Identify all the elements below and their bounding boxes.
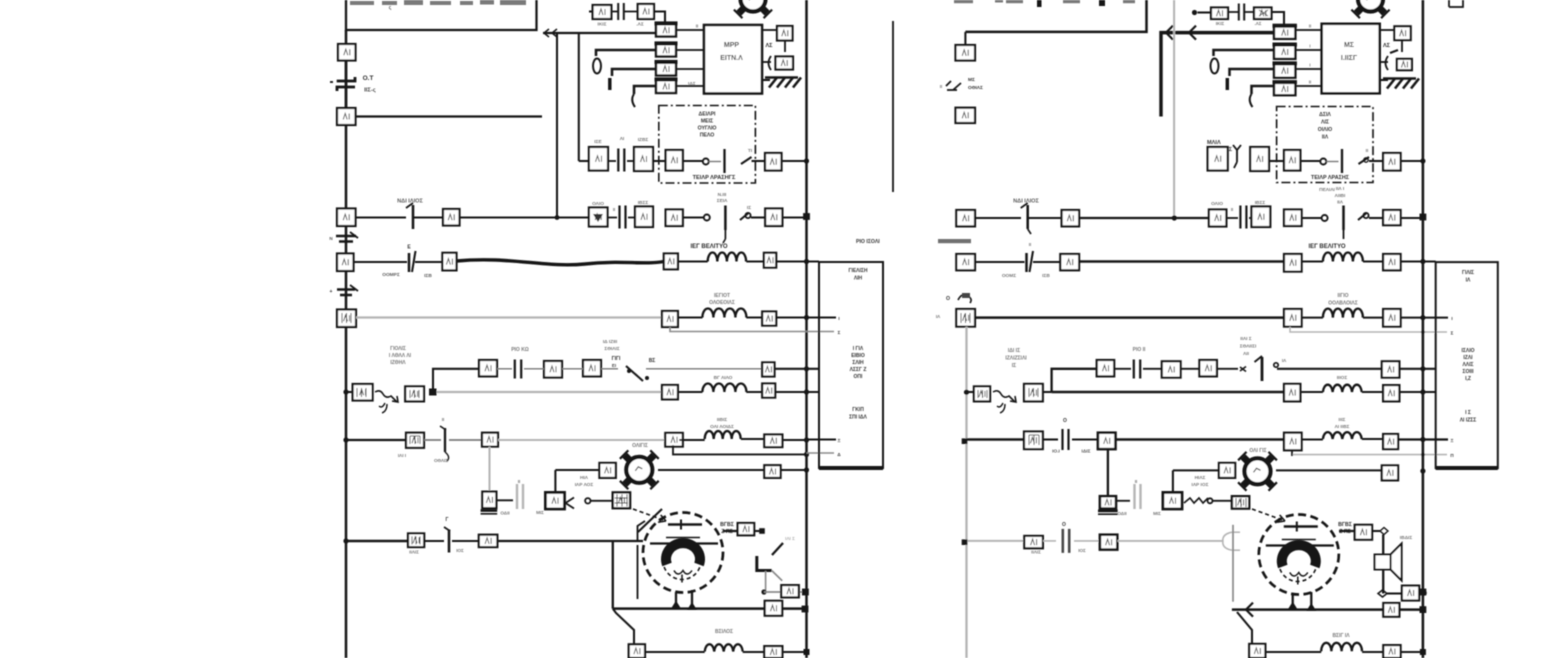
connector B12 rung317 [762,312,776,326]
switch S2 rung217 [704,215,710,221]
connector B14 rung392 [662,385,678,399]
overload thick L P1 [757,556,772,571]
wire rung161 mid2 P2 [1300,160,1320,162]
overload diag gray P1 [772,571,783,581]
capacitor sub P2 [1134,360,1140,379]
svg-text:+: + [330,289,333,295]
svg-text:ΜΙΣ: ΜΙΣ [1153,511,1161,516]
arrow marks top rung P1 [544,29,557,37]
connector B2 rung161 [634,147,653,171]
fan symbol F1 P2 [1238,452,1277,491]
connector B16 rung440 [665,433,683,447]
connector column pin4 P2 [1274,83,1295,96]
svg-text:ΙΖΒΣ: ΙΖΒΣ [638,137,649,143]
svg-text:ΙΛΙ Σ: ΙΛΙ Σ [785,536,795,541]
svg-text:ΠΕΛΙΛΙ: ΠΕΛΙΛΙ [1319,187,1335,193]
wire start b [590,500,612,502]
wire rung392 c P2 [1362,391,1383,393]
svg-text:ΜΕΙΣ: ΜΕΙΣ [701,119,713,125]
connector A9 rung392 [405,386,424,401]
svg-text:ΛΣ: ΛΣ [766,43,774,49]
connector A7 on bus rung317 [337,310,356,328]
right bus wire P2 [1422,0,1425,658]
wire y454 faint P2 [1293,454,1423,456]
arrow on bottom wire P2 [1246,603,1253,617]
connector B5 rung217 [589,208,608,227]
connector G3 bottom P2 [1383,645,1400,658]
motor left curve P2 [1223,532,1232,550]
wire motor right P2 [1339,530,1355,532]
svg-text:ΙΙ: ΙΙ [613,207,615,212]
arrowed wire P2 [1161,33,1274,117]
wire rung541 c P2 [1074,540,1100,542]
svg-text:ΣΛΙΗ: ΣΛΙΗ [852,360,864,366]
wire sub to bus P2 [1399,368,1435,370]
svg-text:ΙΙΛΙ Σ: ΙΙΛΙ Σ [1240,336,1252,342]
wire run-cap vert [554,470,556,492]
svg-text:ΟΟΛΒΛΟΙΛΣ: ΟΟΛΒΛΟΙΛΣ [1328,301,1357,307]
svg-text:ΤΕΙΛΡ ΛΡΑΣΗΣ: ΤΕΙΛΡ ΛΡΑΣΗΣ [1311,175,1350,181]
wire pin2 left [596,50,656,56]
wire bus to A8 P2 [967,391,974,393]
svg-text:Ν.ΙΙΙ: Ν.ΙΙΙ [718,192,727,198]
wire pin3 left P2 [1230,69,1275,76]
wire rung261 c [678,260,708,262]
bus square y592 [802,589,809,596]
wire rung261 a P2 [975,261,1025,263]
squiggle start P2 [1184,498,1208,503]
coil L4 P2 [1323,432,1362,439]
connector B8 rung217 [765,209,782,227]
wire rung440 b P2 [1043,438,1058,440]
svg-text:.ΛΣ: .ΛΣ [636,22,644,28]
svg-text:ΙΣΒ: ΙΣΒ [1042,273,1050,279]
capacitor start gray [517,484,523,509]
junction dot overload P1 [761,589,766,594]
wire rung217 e [751,216,765,218]
wire to ground [784,41,786,53]
wire rung261 a [354,261,408,263]
wire rung392 to box [775,391,819,393]
svg-text:ΙΙΣ-ς: ΙΙΣ-ς [364,88,376,94]
wire rung261 b [415,261,442,263]
connector D1 fan P2 [1219,463,1235,478]
top gray dashes P2 [954,0,1135,3]
svg-text:ΣΘΙΛΙΣ: ΣΘΙΛΙΣ [604,346,619,352]
capacitor rung218 P2 [1226,217,1238,219]
capacitor tilted rung261 P2 [1025,253,1028,272]
wire rung261 d [746,260,764,262]
arrowheads P2 [1166,26,1173,40]
fan symbol condenser-fan top P1 [734,0,772,18]
connector J2 P1 [337,108,356,125]
switch TD rung161 P2 [1320,159,1326,165]
wire rung440 to bus [782,439,806,441]
svg-text:Ξ: Ξ [838,438,841,443]
wire rung392 b P2 [1300,391,1323,393]
svg-text:ΙΚΙΣ: ΙΚΙΣ [1216,21,1225,26]
svg-text:ΙΙ: ΙΙ [940,84,942,89]
wire rung440 c [449,439,482,441]
wire rung261 long P2 [1079,260,1284,263]
svg-text:ΙΙ: ΙΙ [1029,242,1031,247]
svg-text:ΙΟΣ: ΙΟΣ [456,548,464,553]
connector A3 on bus rung217 [337,209,356,227]
wire sub a P2 [1114,368,1131,370]
connector D2 fan P2 [1382,465,1398,480]
svg-text:ΟΛΙΟ: ΟΛΙΟ [592,201,604,207]
connector C1 sub rung [479,360,497,376]
wire rung161 to bus [782,160,807,162]
svg-text:ΙΙ: ΙΙ [1309,24,1311,29]
coil L1 rung261 P2 [1323,253,1363,262]
wire rung261 c P2 [1302,260,1323,262]
svg-text:ΟΥΓΛΙΟ: ΟΥΓΛΙΟ [698,126,717,132]
bus square y609 [802,606,809,613]
svg-text:ΙΒΣΣ: ΙΒΣΣ [638,200,649,206]
svg-text:ΟΛΟΕΟΙΛΣ: ΟΛΟΕΟΙΛΣ [709,300,735,306]
svg-text:ΟΘΛΙΣ: ΟΘΛΙΣ [434,458,448,463]
mid vertical wire x557 P1 [556,33,558,218]
svg-text:Ι: Ι [838,316,839,321]
wire motor bottom diag P2 [1237,612,1252,644]
connector E1 start rung [482,492,496,509]
connector A11 rung440 [482,433,498,447]
wire pin3 left [612,69,656,76]
wire rung440 e [741,438,764,440]
dashed box defrost control P1 [659,106,756,184]
label heater dark under switch [723,239,725,243]
svg-text:ς: ς [389,5,392,11]
connector column pin3 P2 [1274,64,1295,78]
wire rung218 e P2 [1369,217,1383,219]
connector B16 rung440 P2 [1284,433,1302,451]
svg-text:ΡΙΟ ΙΙ: ΡΙΟ ΙΙ [1133,347,1146,353]
svg-text:ΜΡΡ: ΜΡΡ [724,42,740,49]
connector E3 start P2 [1232,496,1249,508]
wire U1 to J3 [763,29,777,31]
switch S2 rung218 P2 [1322,215,1328,221]
connector F1 y592 P2 [1402,586,1419,601]
wire rung541 a [346,540,408,543]
connector C2 sub P2 [1162,361,1181,377]
faint vertical x1174 P2 [1173,0,1175,218]
load box P2 [1436,262,1498,468]
motor pin wires bottom P1 [675,592,677,609]
thermostat squiggle P2 [993,391,1016,402]
svg-text:ΛΙΗ: ΛΙΗ [854,276,863,282]
wire rung541 c [452,540,479,542]
svg-text:ΙΙ: ΙΙ [1309,80,1311,85]
svg-text:ΕΙΒΙΟ: ΕΙΒΙΟ [851,353,865,359]
wire rung440 to box P2 [1398,438,1448,440]
fan symbol F1 P1 [620,450,659,489]
connector D2 fan rung [764,465,780,478]
svg-text:ΙΛ: ΙΛ [1466,278,1471,284]
wire rung261 b P2 [1033,261,1060,263]
dashed arrow to motor P1 [633,509,666,522]
wire motor bottom diag P1 [613,609,634,644]
wire rung317 to box P2 [1401,317,1448,319]
wire rung440 c P2 [1072,438,1098,440]
connector K1 P2 [1211,8,1228,20]
switch rung440 [444,428,446,452]
svg-text:ΙΕΓΙΟΤ: ΙΕΓΙΟΤ [714,293,730,299]
svg-text:ΔΣΙΛ: ΔΣΙΛ [1319,112,1331,118]
connector A8 rung392 [353,384,373,401]
wire vert faint to start [488,447,490,492]
wire rung161 right P2 [1369,160,1383,162]
wire fan rung a [555,469,599,471]
thermostat squiggle rung392 [375,391,398,402]
svg-text:ΒΣ: ΒΣ [649,358,656,364]
wire rung217 a [356,216,407,218]
connector K2 P2 [1254,8,1272,20]
svg-text:ΡΙΟ ΚΩ: ΡΙΟ ΚΩ [511,347,529,353]
connector A9 rung392 P2 [1024,384,1043,402]
connector A10 rung440 P2 [1024,432,1043,450]
wire motor bottom P2 [1232,608,1423,611]
svg-text:ΔΕΙΛΡΙ: ΔΕΙΛΡΙ [699,112,717,118]
svg-text:Ξ: Ξ [1451,438,1454,443]
connector E3 start rung grid [613,492,630,508]
connector B10 rung261 [764,253,776,268]
svg-text:Ο: Ο [1062,522,1066,528]
wire rung392 faint [437,391,663,393]
wire rung440 a [346,439,406,441]
svg-text:Ο: Ο [946,296,950,302]
connector B4 rung161 [765,153,782,171]
wire rung217 c [460,216,589,218]
dashed arrow to motor P2 [1252,509,1285,522]
wire U1 mid pin P2 [1381,61,1388,63]
capacitor PTC sub rung [515,360,521,379]
coil L2 defrost connector [702,309,746,318]
connector column pin1 P2 [1274,26,1295,39]
svg-text:ΙΙΒΙΣ: ΙΙΒΙΣ [717,417,727,423]
wire rung317 pin2 faint [670,327,807,332]
connector column pin4 P1 [656,80,676,93]
wire run-cap vert P2 [1172,470,1174,496]
fan symbol top P2 [1351,0,1389,18]
connector G3 bottom [764,646,782,658]
connector B12 rung317 P2 [1383,309,1401,327]
svg-text:ΙΣΛΙΟ: ΙΣΛΙΟ [1461,348,1474,354]
wire U1 pin mid [763,61,771,63]
connector B13 sub P2 [1382,361,1400,377]
svg-text:ΙΣ: ΙΣ [747,205,751,211]
connector J2 P2 [956,108,976,123]
connector B2 rung161 P2 [1250,147,1269,171]
svg-text:ΕΙ: ΕΙ [612,363,616,368]
wire rung440 e P2 [1362,438,1383,440]
connector B11 rung317 P2 [1284,309,1302,327]
svg-text:ΒΣΙΓ ΙΛ: ΒΣΙΓ ΙΛ [1332,633,1350,639]
connector A5 on bus rung261 [337,254,354,272]
overload switch blade P1 [772,543,783,555]
op-amp U1 main pcb P1 [704,25,762,94]
wire motor left vert1 [612,541,614,609]
svg-text:ΤΙ: ΤΙ [748,148,753,154]
wire rung317 b [678,316,703,318]
svg-text:ΛΙ ΙΙΒΣ: ΛΙ ΙΙΒΣ [1335,424,1350,430]
coil L2 heater connector P2 [1323,309,1363,318]
capacitor on bus y238 P1 [336,235,356,238]
svg-text:Ι ΛΘΛΛ ΛΙ: Ι ΛΘΛΛ ΛΙ [389,353,412,359]
connector A5 rung261 P2 [956,254,975,270]
op-amp U1 P2 [1322,24,1380,94]
switch start [566,498,575,509]
svg-text:ΒΓ ΛΙΛΟ: ΒΓ ΛΙΛΟ [714,375,733,381]
svg-text:Σ: Σ [838,330,841,335]
coil L4 damper [705,431,741,439]
svg-text:ΙΣ: ΙΣ [1012,363,1016,369]
svg-text:ΙΕΓ ΒΕΛΙΤΥΟ: ΙΕΓ ΒΕΛΙΤΥΟ [1308,244,1345,250]
switch sub P2 [1217,368,1238,370]
connector B13 sub rung [762,362,774,376]
svg-text:ΟΔΙΙ: ΟΔΙΙ [1117,511,1126,516]
svg-text:ΙΒΔΙΣ: ΙΒΔΙΣ [1400,535,1413,541]
capacitor start P2 [1135,484,1141,509]
connector column pin1 P1 [656,24,676,37]
svg-text:ΒΓΒΣ: ΒΓΒΣ [1338,522,1352,528]
diamond2 P2 [1378,590,1387,597]
svg-text:Ι: Ι [1309,63,1310,68]
svg-text:ΡΙΟ ΙΣΟΛΙ: ΡΙΟ ΙΣΟΛΙ [856,239,880,245]
svg-text:ΟΛΙ ΓΙΣ: ΟΛΙ ΓΙΣ [1249,448,1266,454]
wire rung541 d P2 [1117,540,1223,542]
connector G2 bottom P2 [1249,644,1265,658]
pin wires to IC P1 [676,29,704,31]
connector B11 rung317 [662,311,678,327]
wire sub vertical [433,369,479,389]
junction square rung392 [429,389,437,396]
wavy scan line rung261 [457,260,664,265]
svg-text:ΟΟΜΡΣ: ΟΟΜΡΣ [382,272,400,278]
wire rung392 b [678,391,703,393]
wire rung392 long P2 [1052,391,1284,394]
svg-text:ΙΙ: ΙΙ [1231,207,1233,212]
connector B17 rung440 P2 [1383,434,1398,449]
ground G1 P2 [1383,79,1419,89]
wire top left drop P2 [964,32,966,45]
coil L5 bottom P2 [1321,643,1362,652]
connector B14 rung392 P2 [1284,384,1300,402]
connector A4 rung217 [443,209,460,226]
wire rung218 d P2 [1302,217,1322,219]
right bus wire P1 [805,0,808,658]
wire rung317 c [746,316,762,318]
svg-text:ΛΛΙΣ: ΛΛΙΣ [1462,362,1473,368]
capacitor rung161 [608,160,616,162]
svg-text:Ι ΓΙΛ: Ι ΓΙΛ [853,346,864,352]
wire rung217 to bus [782,216,806,218]
connector A12 rung541 P2 [1024,536,1043,548]
svg-text:ΟΟΜΣ: ΟΟΜΣ [1002,273,1016,279]
connector B3 rung161 P2 [1284,150,1300,171]
svg-text:Ι Σ: Ι Σ [1465,410,1471,416]
connector column pin3 P1 [656,63,676,76]
wire bus to A8 [346,391,353,393]
svg-text:ΙΙ: ΙΙ [442,417,445,422]
wire rung440 a P2 [967,438,1025,441]
wire sub b [562,368,583,370]
wire rung218 c P2 [1079,217,1209,219]
top-left program box P1 [346,0,537,30]
wire rung317 P2 [975,316,1284,319]
connector J4 P1 [776,57,794,70]
wire rung317 to box [776,316,836,318]
wire rung161 right [752,160,766,162]
wire fan rung b [658,469,764,471]
svg-text:ΟΘΙΛΣ: ΟΘΙΛΣ [968,85,983,91]
connector column pin2 P1 [656,44,676,57]
svg-text:ΓΙΛΙΣ: ΓΙΛΙΣ [1462,270,1474,276]
wire sub to box [775,368,820,370]
svg-text:Π: Π [1450,453,1453,458]
connector F2 y609 P2 [1383,603,1399,617]
connector B8 rung218 P2 [1383,210,1401,225]
svg-text:ΙΙ: ΙΙ [518,479,521,484]
capacitor on sub rung [611,11,618,13]
wire bottom rung P2 [1252,651,1265,653]
wire sub a [497,368,512,370]
wire rung217 d [683,216,704,218]
svg-text:ΙΟΣ: ΙΟΣ [1078,548,1086,553]
svg-text:Ο.Τ: Ο.Τ [363,75,374,82]
wire rung161 mid P2 [1269,160,1284,162]
wire bottom rung P1 [645,651,705,653]
left bus faint P2 [965,327,967,658]
wire rung392 to bus P2 [1399,391,1435,393]
wire speaker down P2 [1382,569,1384,593]
svg-text:ΙΙΛ Ι: ΙΙΛ Ι [1336,186,1345,192]
capacitor rung541 [448,530,451,553]
connector A11 rung440 P2 [1098,433,1116,449]
svg-text:ΟΠΙ: ΟΠΙ [854,374,864,380]
wire y592 P1 [764,591,802,593]
svg-text:ΣΠΙ ΙΔΛ: ΣΠΙ ΙΔΛ [849,415,867,421]
svg-text:ΒΓΒΣ: ΒΓΒΣ [720,522,734,528]
svg-text:Ι: Ι [1309,44,1310,49]
valve symbol MT P2 [946,81,961,90]
svg-text:ΟΔΙΙ: ΟΔΙΙ [500,511,509,516]
capacitor rung217 [608,217,618,219]
wire U1 to J3 P2 [1381,29,1395,31]
svg-text:ΙΛΙ Ι: ΙΛΙ Ι [398,453,406,458]
mid vertical wire x579 P1 [578,33,580,161]
svg-text:ΙΙΛ: ΙΙΛ [1322,135,1329,141]
connector D1 fan rung [599,463,615,478]
wire to ground P2 [1401,40,1403,52]
motor pin wires bottom P2 [1292,594,1294,610]
svg-text:ΗΙΛ: ΗΙΛ [580,475,589,481]
svg-text:Σ: Σ [1451,331,1454,336]
wire rung317 faint [356,316,662,318]
connector B15 rung392 [762,384,775,398]
svg-text:ΙΔΙΣ: ΙΔΙΣ [1082,449,1091,455]
wire rung261 d P2 [1363,260,1383,262]
capacitor rung541 P2 [1063,529,1069,553]
connector J3 P2 [1394,26,1410,40]
wire rung541 d [497,540,643,542]
switch NC sub rung [601,368,618,370]
connector C3 sub rung [583,360,601,376]
svg-text:ΙΣΒ: ΙΣΒ [424,273,432,279]
svg-text:ΙΣΕ: ΙΣΕ [594,139,602,145]
svg-text:ΛΣ: ΛΣ [1383,43,1391,49]
switch S1 rung218 P2 [1026,205,1029,229]
